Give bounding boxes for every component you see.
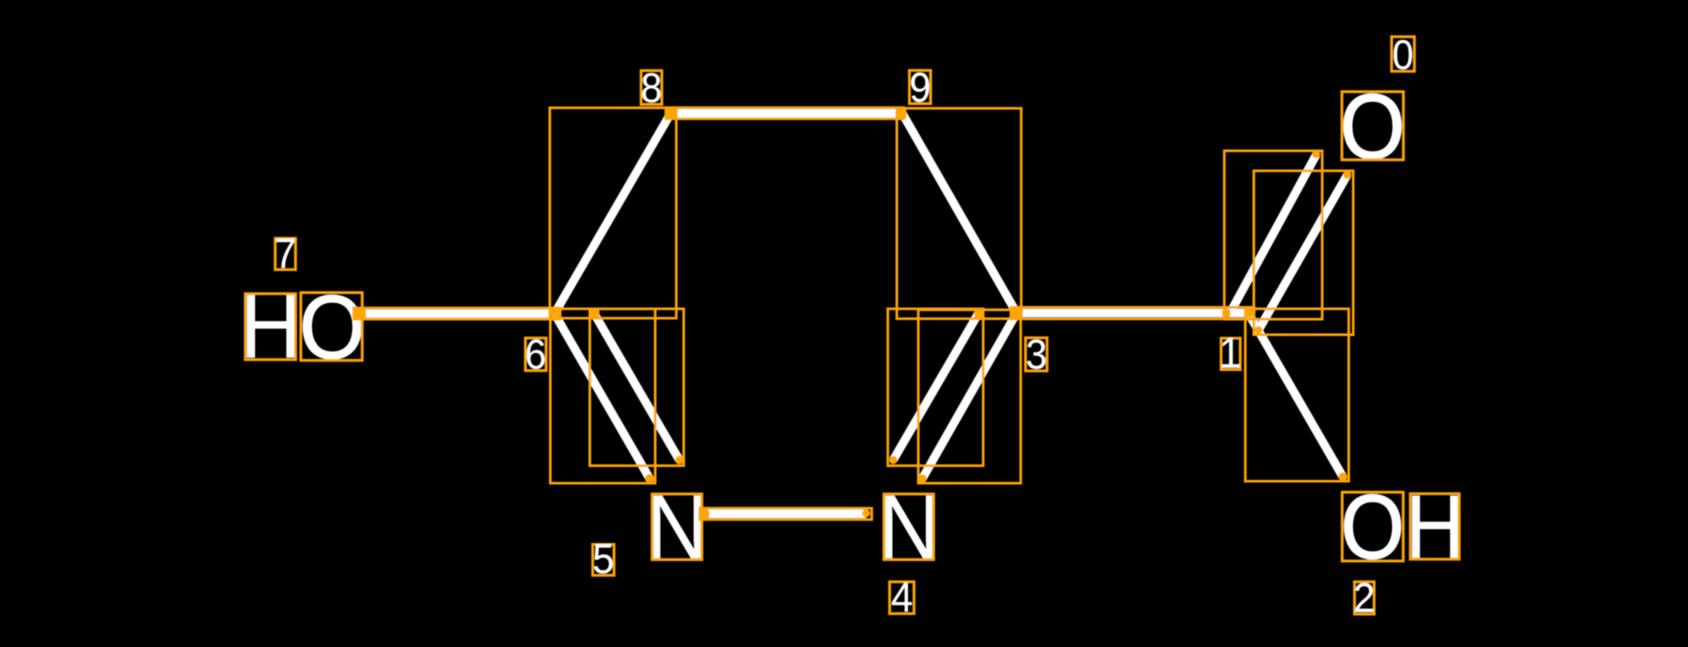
atom-index digit index 9: [909, 65, 931, 110]
endpoint marker at atom C3: [1011, 307, 1023, 319]
svg-text:N: N: [646, 475, 708, 578]
svg-text:5: 5: [592, 535, 614, 582]
svg-text:2: 2: [1353, 574, 1375, 621]
bbox atom-index label index 1: [1221, 338, 1240, 369]
atom-index digit index 4: [891, 574, 913, 621]
atom label text N (atom 5): [646, 475, 708, 578]
svg-text:3: 3: [1026, 333, 1048, 378]
bbox bond C3-C1: [1011, 307, 1254, 319]
bond C8-C9 (ring single): [671, 109, 898, 118]
atom-index digit index 0: [1392, 33, 1414, 78]
endpoint marker at O0 end of bond C1=O0 inner: [1343, 171, 1351, 179]
svg-text:7: 7: [274, 230, 296, 277]
endpoint marker at N4 end of bond C3=N4 main: [918, 474, 926, 482]
bbox atom-index label index 5: [593, 544, 614, 575]
bond C3=N4 main line: [922, 313, 1016, 479]
svg-text:6: 6: [525, 332, 547, 377]
atom-index digit index 8: [641, 66, 663, 111]
atom label text O of HO group (atom 7): [299, 277, 365, 378]
svg-text:O: O: [1340, 74, 1405, 178]
bbox bond C9-C3: [897, 108, 1021, 318]
endpoint marker at N5 end of bond C6=N5 inner: [675, 456, 683, 464]
bbox atom-index label index 0: [1392, 37, 1415, 72]
bbox atom-index label index 4: [890, 582, 914, 614]
bbox atom-index label index 9: [909, 70, 930, 103]
endpoint marker at N4 end of bond C3=N4 inner: [889, 456, 897, 464]
bbox atom-index label index 2: [1355, 582, 1375, 614]
endpoint marker at O2 end of bond C1-O2: [1339, 472, 1348, 481]
bbox bond C6=N5 main: [550, 309, 655, 483]
bbox atom-index label index 3: [1026, 338, 1048, 371]
atom label text N (atom 4): [878, 475, 940, 578]
endpoint marker at atom C8: [665, 108, 676, 119]
atom-index digit index 7: [274, 230, 296, 277]
svg-text:0: 0: [1392, 33, 1414, 78]
bbox bond C8-C9: [666, 108, 904, 119]
atom-index digit index 3: [1026, 333, 1048, 378]
atom label text H of OH group: [1405, 477, 1464, 577]
svg-text:H: H: [1405, 477, 1464, 577]
bond N4-N5 (ring single): [704, 510, 866, 519]
bbox atom label H (of HO, atom 7): [245, 294, 295, 360]
bbox atom label O0: [1342, 92, 1404, 160]
bond C1-O2 (single): [1248, 313, 1343, 477]
bond C9-C3 (ring single): [903, 114, 1017, 313]
bond O7-C6 (single): [360, 309, 555, 318]
svg-text:4: 4: [891, 574, 913, 621]
bbox atom label N4: [884, 494, 934, 560]
atom-index digit index 2: [1353, 574, 1375, 621]
atom-index digit index 6: [525, 332, 547, 377]
atom label text O of OH group (atom 2): [1341, 477, 1405, 578]
bbox bond C1=O0 inner: [1254, 171, 1353, 335]
endpoint marker at C1 end of inner C1=O0 line: [1255, 326, 1263, 334]
svg-text:N: N: [878, 475, 940, 578]
bond C6-C8 (ring single): [555, 114, 671, 314]
bbox bond N4-N5: [700, 508, 872, 519]
endpoint marker at C6 end of inner double-bond line: [589, 309, 599, 319]
bond C6=N5 main line: [555, 314, 650, 479]
bbox bond C3=N4 inner: [888, 309, 983, 466]
bond C3=N4 inner line: [893, 314, 978, 460]
bbox bond C1-O2: [1245, 309, 1348, 481]
bbox atom label O (of OH, atom 2): [1342, 492, 1403, 561]
endpoint marker at N5 end of bond N4-N5: [699, 509, 710, 520]
atom label text O (atom 0): [1340, 74, 1405, 178]
svg-text:9: 9: [909, 65, 931, 110]
endpoint marker at C1 end of bond C1-O2: [1244, 309, 1252, 317]
bbox bond O7-C6: [354, 308, 561, 319]
bond C1=O0 inner line: [1259, 175, 1348, 330]
endpoint marker at atom C9: [898, 109, 907, 118]
bond C3-C1 (single): [1017, 309, 1252, 318]
bbox bond C3=N4 main: [918, 310, 1020, 483]
bbox atom-index label index 7: [275, 238, 295, 269]
endpoint marker at O0 end of bond C1=O0 main: [1312, 150, 1320, 158]
bond C1=O0 main line: [1230, 155, 1316, 313]
endpoint marker at atom C6: [549, 308, 560, 319]
bbox bond C6=N5 inner: [590, 309, 684, 466]
bond C6=N5 inner line: [594, 314, 679, 460]
bbox atom-index label index 8: [641, 71, 662, 105]
svg-text:H: H: [240, 275, 301, 377]
bbox atom label H (of OH, atom 2): [1410, 494, 1459, 560]
serif foot of index digit 1: [1222, 365, 1240, 368]
bbox bond C6-C8: [550, 108, 677, 318]
svg-text:1: 1: [1219, 330, 1241, 377]
atom label text H of HO group: [240, 275, 301, 377]
endpoint marker at N4 end of bond N4-N5: [862, 509, 870, 517]
svg-text:8: 8: [641, 66, 663, 111]
endpoint marker at C3 end of inner double-bond line: [974, 310, 982, 318]
bbox bond C1=O0 main: [1224, 151, 1322, 319]
endpoint marker at O7 end of bond O7-C6: [354, 307, 366, 319]
bbox atom label O (of HO, atom 7): [301, 293, 362, 361]
atom-index digit index 1: [1219, 330, 1241, 377]
bbox atom-index label index 6: [525, 338, 546, 371]
atom-index digit index 5: [592, 535, 614, 582]
endpoint marker at atom C1 (bond C3-C1 end): [1222, 309, 1230, 317]
endpoint marker at N5 end of bond C6=N5 main: [645, 474, 654, 483]
bbox atom label N5: [652, 494, 702, 560]
